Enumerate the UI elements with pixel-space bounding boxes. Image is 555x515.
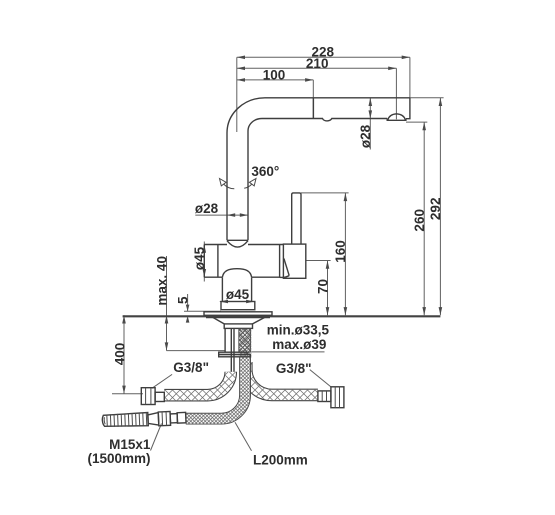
underline and leader for min/max [240, 348, 325, 352]
dim o28 right vertical line [369, 98, 371, 150]
extension from handle top for 160 [301, 192, 349, 194]
svg-text:70: 70 [315, 279, 330, 294]
right supply hose band [246, 362, 318, 395]
svg-text:360°: 360° [251, 164, 279, 179]
spray head joint line on spout [312, 98, 314, 119]
escutcheon lower lip [206, 317, 270, 319]
neck sides [222, 277, 251, 301]
left supply hose band [164, 372, 230, 395]
svg-text:100: 100 [263, 68, 286, 83]
G3/8 right leader [310, 370, 332, 388]
dim 160 vertical line [344, 193, 346, 315]
bend outer arc [227, 98, 265, 133]
dim o45 base line with arrows [220, 301, 255, 303]
handle housing [283, 244, 305, 278]
svg-text:min.ø33,5: min.ø33,5 [267, 323, 330, 338]
svg-text:292: 292 [428, 198, 443, 221]
riser pipe left side [226, 133, 228, 240]
extension from spout top for 292 [410, 97, 444, 99]
pull-out hose end fitting assembly [102, 411, 186, 428]
svg-text:G3/8": G3/8" [276, 361, 312, 376]
body bottom line right of neck [252, 276, 281, 278]
svg-text:(1500mm): (1500mm) [87, 451, 150, 466]
handle lever rod [292, 193, 301, 244]
svg-text:260: 260 [412, 209, 427, 232]
left supply nut G3/8 [141, 388, 155, 405]
dim o45 body vertical line [203, 242, 205, 282]
corrugated hose 1500mm [102, 413, 148, 428]
spray hose cone [148, 413, 159, 426]
dim 100 line [237, 79, 313, 81]
extension from handle housing for 70 [306, 260, 331, 262]
dim o28 left line under text [195, 214, 248, 216]
svg-text:G3/8": G3/8" [173, 360, 209, 375]
svg-text:5: 5 [175, 296, 190, 304]
pipe bottom seam [227, 239, 248, 241]
spray hose hex nut M15x1 [158, 412, 170, 426]
rotation arrow left of pipe [224, 184, 235, 189]
L200mm leader [235, 422, 252, 451]
pull-out spray hose band [186, 357, 245, 419]
svg-text:max. 40: max. 40 [154, 256, 169, 306]
svg-text:L200mm: L200mm [253, 452, 308, 467]
body top line [204, 244, 283, 246]
body right seam [279, 245, 281, 278]
extension line right end of 100 across spout [312, 80, 314, 119]
escutcheon plate [204, 312, 272, 316]
spray hose ring [170, 414, 177, 423]
right supply nut G3/8 [331, 387, 344, 408]
dim 400 vertical line [112, 315, 143, 394]
base collar o45 [221, 302, 255, 310]
body left end cap [204, 245, 218, 278]
svg-text:210: 210 [306, 56, 329, 71]
svg-text:M15x1: M15x1 [109, 437, 151, 452]
extension line right end of 210 down to aerator [395, 68, 397, 119]
spray hose upper part behind shank [239, 329, 252, 358]
extension from aerator bottom for 260 [406, 121, 427, 123]
threaded shank hatch [239, 329, 251, 353]
neck arch where riser meets body [222, 269, 251, 277]
svg-text:ø28: ø28 [358, 124, 373, 148]
aerator dome [387, 114, 406, 121]
G3/8 left leader [152, 374, 172, 388]
skirt left slope [213, 317, 224, 324]
dim 70 vertical line [327, 261, 329, 316]
rotation arrow right of pipe [244, 184, 252, 188]
left supply coupler [155, 392, 164, 401]
spout arm top line [265, 97, 410, 99]
countertop deck line [123, 315, 441, 317]
spout arm end cap [406, 98, 410, 119]
svg-text:max.ø39: max.ø39 [272, 337, 326, 352]
dim 228 line [237, 56, 410, 58]
handle housing bottom curve [280, 276, 290, 278]
dim 292 vertical line [439, 98, 441, 315]
shank tube lines [225, 329, 234, 372]
extension line from pipe centre up to 228 dim [236, 57, 238, 132]
svg-text:ø45: ø45 [226, 287, 250, 302]
dim 5 leader and extension [184, 294, 221, 311]
spray hose collar piece [177, 412, 186, 423]
right supply coupler [318, 391, 331, 402]
dim 210 line [237, 67, 397, 69]
bend inner arc [248, 119, 262, 132]
svg-text:ø28: ø28 [195, 201, 219, 216]
skirt box [224, 324, 252, 329]
riser pipe right side [247, 131, 249, 240]
body bottom line left of neck [204, 276, 222, 278]
dim 260 vertical line [423, 122, 425, 315]
M15x1 leader [151, 424, 162, 451]
skirt right slope [253, 317, 265, 324]
handle housing diagonal [284, 259, 289, 276]
mounting bracket plates [219, 352, 247, 354]
svg-text:160: 160 [333, 240, 348, 263]
extension line right end of 228 down to spout tip [409, 57, 411, 98]
svg-text:400: 400 [113, 343, 128, 366]
dim max40 vertical line [167, 256, 226, 351]
spout arm bottom line with clip notch [262, 119, 387, 121]
